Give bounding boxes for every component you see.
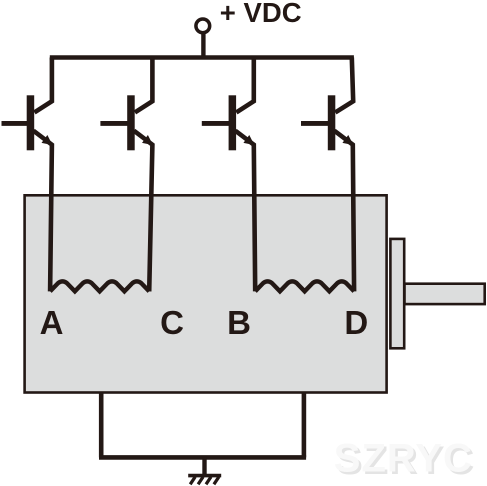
wire: ground bottom horizontal bbox=[99, 455, 306, 460]
ground hatch 2 bbox=[198, 477, 203, 485]
transistor Q2 bbox=[100, 58, 152, 292]
base lead Q2 bbox=[100, 121, 129, 126]
base lead Q1 bbox=[2, 121, 30, 126]
svg-text:D: D bbox=[344, 304, 368, 341]
svg-text:+ VDC: + VDC bbox=[220, 0, 302, 28]
emitter arrow Q1 bbox=[42, 136, 51, 144]
base lead Q3 bbox=[202, 121, 231, 126]
collector Q4 bbox=[335, 58, 353, 113]
ground bar bbox=[188, 474, 221, 478]
transistor Q4 bbox=[301, 58, 354, 292]
coil A-C (winding 1) bbox=[50, 281, 149, 291]
transistor Q3 bbox=[202, 58, 255, 292]
base bar Q4 bbox=[328, 95, 336, 150]
base bar Q1 bbox=[27, 95, 35, 150]
emitter arrow Q3 bbox=[244, 136, 253, 144]
ground hatch 1 bbox=[190, 477, 195, 485]
emitter arrow Q2 bbox=[143, 136, 152, 144]
emitter arrow Q4 bbox=[343, 136, 352, 144]
motor bearing boss bbox=[390, 239, 404, 348]
base bar Q3 bbox=[229, 95, 237, 150]
wire: ground right vertical bbox=[302, 392, 307, 457]
+VDC terminal circle bbox=[196, 19, 210, 33]
ground hatch 3 bbox=[206, 477, 211, 485]
emitter Q2 bbox=[134, 131, 153, 292]
transistor Q1 bbox=[2, 58, 52, 292]
motor body bbox=[25, 195, 387, 392]
emitter Q3 bbox=[235, 131, 255, 292]
svg-text:SZRYC: SZRYC bbox=[334, 436, 473, 480]
svg-text:B: B bbox=[227, 304, 251, 341]
collector Q1 bbox=[34, 58, 52, 113]
collector Q2 bbox=[135, 58, 153, 113]
base lead Q4 bbox=[301, 121, 330, 126]
gap between motor and boss bbox=[388, 240, 390, 348]
coil B-D (winding 2) bbox=[255, 281, 354, 291]
motor shaft bbox=[405, 284, 485, 304]
svg-text:A: A bbox=[40, 304, 64, 341]
wire: ground stub bbox=[202, 457, 206, 474]
wire: ground left vertical bbox=[99, 392, 104, 457]
emitter Q1 bbox=[33, 131, 52, 292]
ground hatch 4 bbox=[214, 477, 219, 485]
emitter Q4 bbox=[334, 131, 354, 292]
base bar Q2 bbox=[127, 95, 135, 150]
collector Q3 bbox=[236, 58, 254, 113]
svg-text:C: C bbox=[160, 304, 184, 341]
wire: top +VDC rail bbox=[50, 55, 354, 59]
wire: VDC stub bbox=[201, 33, 205, 60]
